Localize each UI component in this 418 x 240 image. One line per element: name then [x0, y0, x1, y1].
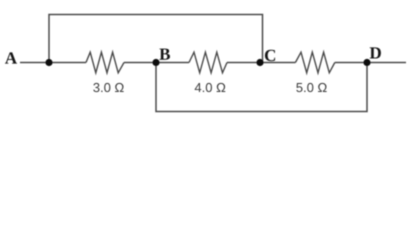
wire from node A to junction and on to R1 — [20, 62, 86, 64]
wire node D to right end — [367, 62, 406, 64]
value label 5.0 ohm — [296, 83, 326, 92]
junction dot after node A — [45, 59, 52, 66]
resistor R3 5.0 ohm zigzag — [295, 52, 334, 73]
value label 3.0 ohm — [93, 83, 123, 92]
junction dot node B — [152, 59, 159, 66]
top bypass wire: junction up, across, down to node C — [49, 15, 263, 63]
wire node B to R2 — [156, 62, 189, 64]
node label C — [265, 50, 275, 61]
resistor R1 3.0 ohm zigzag — [86, 52, 124, 73]
node label B — [159, 49, 170, 60]
wire R3 to node D — [335, 62, 367, 64]
value label 4.0 ohm — [195, 83, 226, 92]
wire R1 to node B — [124, 62, 156, 64]
node label D — [370, 47, 381, 58]
wire node C to R3 — [261, 62, 296, 64]
resistor R2 4.0 ohm zigzag — [189, 52, 227, 73]
wire R2 to node C — [227, 62, 261, 64]
node label A — [5, 52, 17, 63]
bottom bypass wire: node B down, across, up to node D — [156, 63, 367, 112]
junction dot node D — [363, 59, 370, 66]
junction dot node C — [256, 59, 263, 66]
